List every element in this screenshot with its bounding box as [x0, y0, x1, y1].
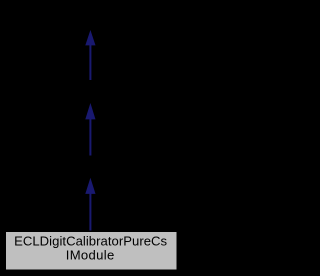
svg-text:IModule: IModule [66, 248, 115, 263]
arrow 2 (middle inheritance arrow) [85, 103, 95, 156]
svg-text:ECLDigitCalibratorPureCs: ECLDigitCalibratorPureCs [14, 233, 167, 248]
arrow 3 (bottom inheritance arrow) [85, 178, 95, 231]
node box ECLDigitCalibratorPureCsIModule [6, 232, 177, 270]
arrow 1 (top inheritance arrow) [85, 30, 95, 80]
